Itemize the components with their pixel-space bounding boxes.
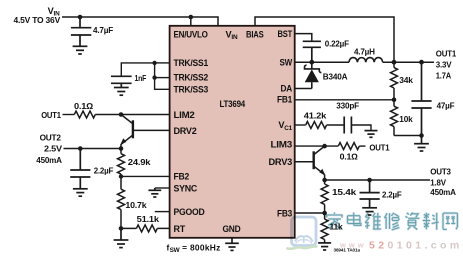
capacitor C5 47uF	[411, 62, 431, 144]
watermark char xiu	[384, 213, 399, 230]
wire R8 to OUT1 label	[359, 145, 365, 147]
node junction VIN/C1	[78, 15, 83, 20]
wire R1 to LIM2	[95, 114, 169, 116]
wire VIN top rail	[62, 17, 218, 26]
resistor R6 10k	[391, 100, 398, 136]
resistor R4 51.1k	[121, 225, 170, 232]
node junction C5 bottom	[419, 133, 424, 138]
ground C5	[414, 144, 429, 151]
wire GND stub	[231, 238, 233, 244]
svg-text:OUT2: OUT2	[40, 132, 62, 142]
capacitor C3 2.2uF	[70, 149, 90, 189]
node junction OUT3/C7	[367, 178, 372, 183]
wire C6 to ground	[351, 125, 371, 131]
watermark char zi	[405, 212, 419, 229]
wire OUT3 rail	[325, 179, 430, 181]
svg-text:LIM3: LIM3	[271, 139, 293, 149]
svg-text:3.3V: 3.3V	[436, 60, 452, 70]
ground GND pin	[225, 243, 239, 250]
svg-text:OUT1: OUT1	[41, 110, 61, 120]
svg-text:SYNC: SYNC	[174, 184, 198, 194]
wire TRK/SS1	[155, 62, 170, 64]
svg-text:BIAS: BIAS	[246, 29, 264, 39]
node junction Q1 collector	[119, 112, 124, 117]
wire DA	[295, 88, 312, 90]
ground C1	[73, 46, 88, 54]
svg-text:LIM2: LIM2	[174, 110, 195, 120]
node junction OUT2/Q1e	[119, 146, 124, 151]
wire LIM3	[295, 145, 339, 147]
node junction OUT2/C3	[78, 146, 83, 151]
ground C7	[362, 208, 377, 215]
resistor R8 0.1ohm	[338, 143, 359, 150]
svg-text:51.1k: 51.1k	[137, 214, 160, 224]
svg-text:GND: GND	[223, 224, 242, 234]
svg-text:TRK/SS1: TRK/SS1	[174, 58, 209, 68]
svg-text:LT3694: LT3694	[220, 99, 246, 109]
wire L1 to OUT1	[383, 61, 434, 63]
svg-text:OUT1: OUT1	[369, 142, 389, 152]
watermark logo book	[287, 217, 318, 249]
svg-text:0.1Ω: 0.1Ω	[74, 101, 94, 111]
svg-text:2.5V: 2.5V	[44, 144, 62, 154]
transistor Q1 NPN	[120, 115, 170, 149]
svg-text:DA: DA	[281, 84, 293, 94]
ground R3	[114, 228, 129, 247]
svg-text:10.7k: 10.7k	[125, 200, 147, 210]
capacitor C7 2.2uF	[360, 180, 380, 208]
IC U1 LT3694 body	[170, 26, 295, 238]
svg-text:24.9k: 24.9k	[128, 157, 151, 167]
svg-text:DRV3: DRV3	[269, 157, 293, 167]
svg-text:OUT3: OUT3	[430, 167, 451, 177]
svg-text:520101.com: 520101.com	[369, 240, 463, 252]
node junction VIN/EN	[189, 15, 194, 20]
watermark char dian	[348, 212, 361, 225]
resistor R3 10.7k	[118, 176, 125, 228]
svg-text:1.7A: 1.7A	[436, 70, 451, 80]
ground C2	[114, 88, 129, 96]
ground C3	[73, 189, 88, 196]
wire R6 bottom to C5 gnd	[394, 135, 422, 137]
resistor R2 24.9k	[118, 149, 125, 177]
capacitor C2 1nF	[111, 76, 132, 87]
inductor L1 4.7uH	[349, 58, 383, 63]
node junction L1/BIAS/R5	[392, 60, 397, 65]
svg-text:15.4k: 15.4k	[332, 187, 357, 197]
svg-text:450mA: 450mA	[36, 155, 62, 165]
wire OUT2 rail	[64, 148, 122, 150]
svg-text:2.2µF: 2.2µF	[382, 189, 402, 199]
watermark char liao	[423, 213, 439, 230]
ground VC1	[365, 131, 378, 138]
svg-text:41.2k: 41.2k	[304, 110, 327, 120]
svg-text:FB2: FB2	[174, 171, 190, 181]
watermark char wang	[443, 213, 457, 229]
svg-text:BST: BST	[278, 29, 293, 39]
diode D1 B340A	[304, 62, 321, 88]
svg-text:fSW = 800kHz: fSW = 800kHz	[167, 243, 221, 255]
node junction RT/gnd	[119, 226, 124, 231]
wire EN/UVLO stub	[190, 17, 192, 26]
resistor R10 11k	[321, 213, 328, 243]
wire R7 to C6	[327, 124, 345, 126]
svg-text:47µF: 47µF	[437, 101, 455, 111]
capacitor C4 0.22uF	[303, 41, 321, 62]
wire FB1	[295, 99, 394, 101]
svg-text:450mA: 450mA	[430, 187, 456, 197]
wire SYNC stub	[155, 187, 170, 189]
node junction FB2	[119, 174, 123, 178]
svg-text:4.5V TO 36V: 4.5V TO 36V	[14, 15, 61, 25]
svg-text:4.7µF: 4.7µF	[93, 25, 113, 35]
svg-text:OUT1: OUT1	[436, 48, 457, 58]
node junction OUT3/Q2e	[322, 178, 327, 183]
wire FB3	[295, 212, 325, 214]
resistor R5 34k	[391, 62, 398, 100]
ground SYNC	[148, 188, 161, 197]
svg-text:4.7µH: 4.7µH	[354, 47, 375, 57]
svg-text:SW: SW	[280, 58, 293, 68]
svg-text:PGOOD: PGOOD	[174, 207, 206, 217]
node junction Q2 collector	[322, 144, 327, 149]
svg-text:B340A: B340A	[323, 72, 348, 82]
svg-text:0.1Ω: 0.1Ω	[340, 152, 359, 162]
svg-text:2.2µF: 2.2µF	[94, 165, 114, 175]
resistor R7 41.2k	[306, 122, 327, 129]
svg-text:FB3: FB3	[277, 208, 292, 218]
transistor Q2 NPN	[295, 146, 326, 180]
svg-text:TRK/SS3: TRK/SS3	[174, 84, 209, 94]
wire VC1	[295, 124, 306, 126]
watermark char wei	[365, 213, 381, 229]
watermark char jia	[326, 212, 343, 229]
wire BIAS rail to OUT1 node	[255, 17, 394, 62]
svg-text:RT: RT	[174, 224, 186, 234]
wire SW	[295, 61, 349, 63]
node junction FB1	[392, 98, 397, 103]
svg-text:www: www	[339, 240, 367, 249]
wire PGOOD stub	[155, 211, 170, 213]
node junction SS2	[152, 75, 156, 79]
node junction FB3	[322, 211, 327, 216]
wire TRK/SS2	[155, 77, 170, 79]
wire FB2	[121, 175, 170, 177]
capacitor C6 330pF	[344, 117, 351, 134]
node junction SS1	[152, 61, 156, 65]
wire OUT1 to R1	[63, 114, 75, 116]
svg-text:FB1: FB1	[277, 95, 292, 105]
svg-text:1nF: 1nF	[135, 73, 147, 83]
node junction OUT1/C5	[419, 60, 424, 65]
svg-text:DRV2: DRV2	[174, 126, 197, 136]
wire BST stub	[295, 34, 312, 42]
svg-text:EN/UVLO: EN/UVLO	[174, 29, 208, 39]
wire TRK/SS3	[155, 63, 170, 89]
svg-text:TRK/SS2: TRK/SS2	[174, 73, 209, 83]
resistor R9 15.4k	[321, 180, 328, 213]
svg-text:0.22µF: 0.22µF	[325, 39, 349, 49]
resistor R1 0.1ohm	[74, 111, 95, 118]
svg-text:330pF: 330pF	[336, 100, 359, 110]
ground R10	[318, 243, 331, 250]
svg-text:34k: 34k	[399, 75, 413, 85]
svg-text:10k: 10k	[399, 114, 413, 124]
capacitor C1 4.7uF	[71, 17, 91, 46]
node junction SW	[309, 60, 314, 65]
wire 1nF to SS rail	[121, 63, 154, 76]
